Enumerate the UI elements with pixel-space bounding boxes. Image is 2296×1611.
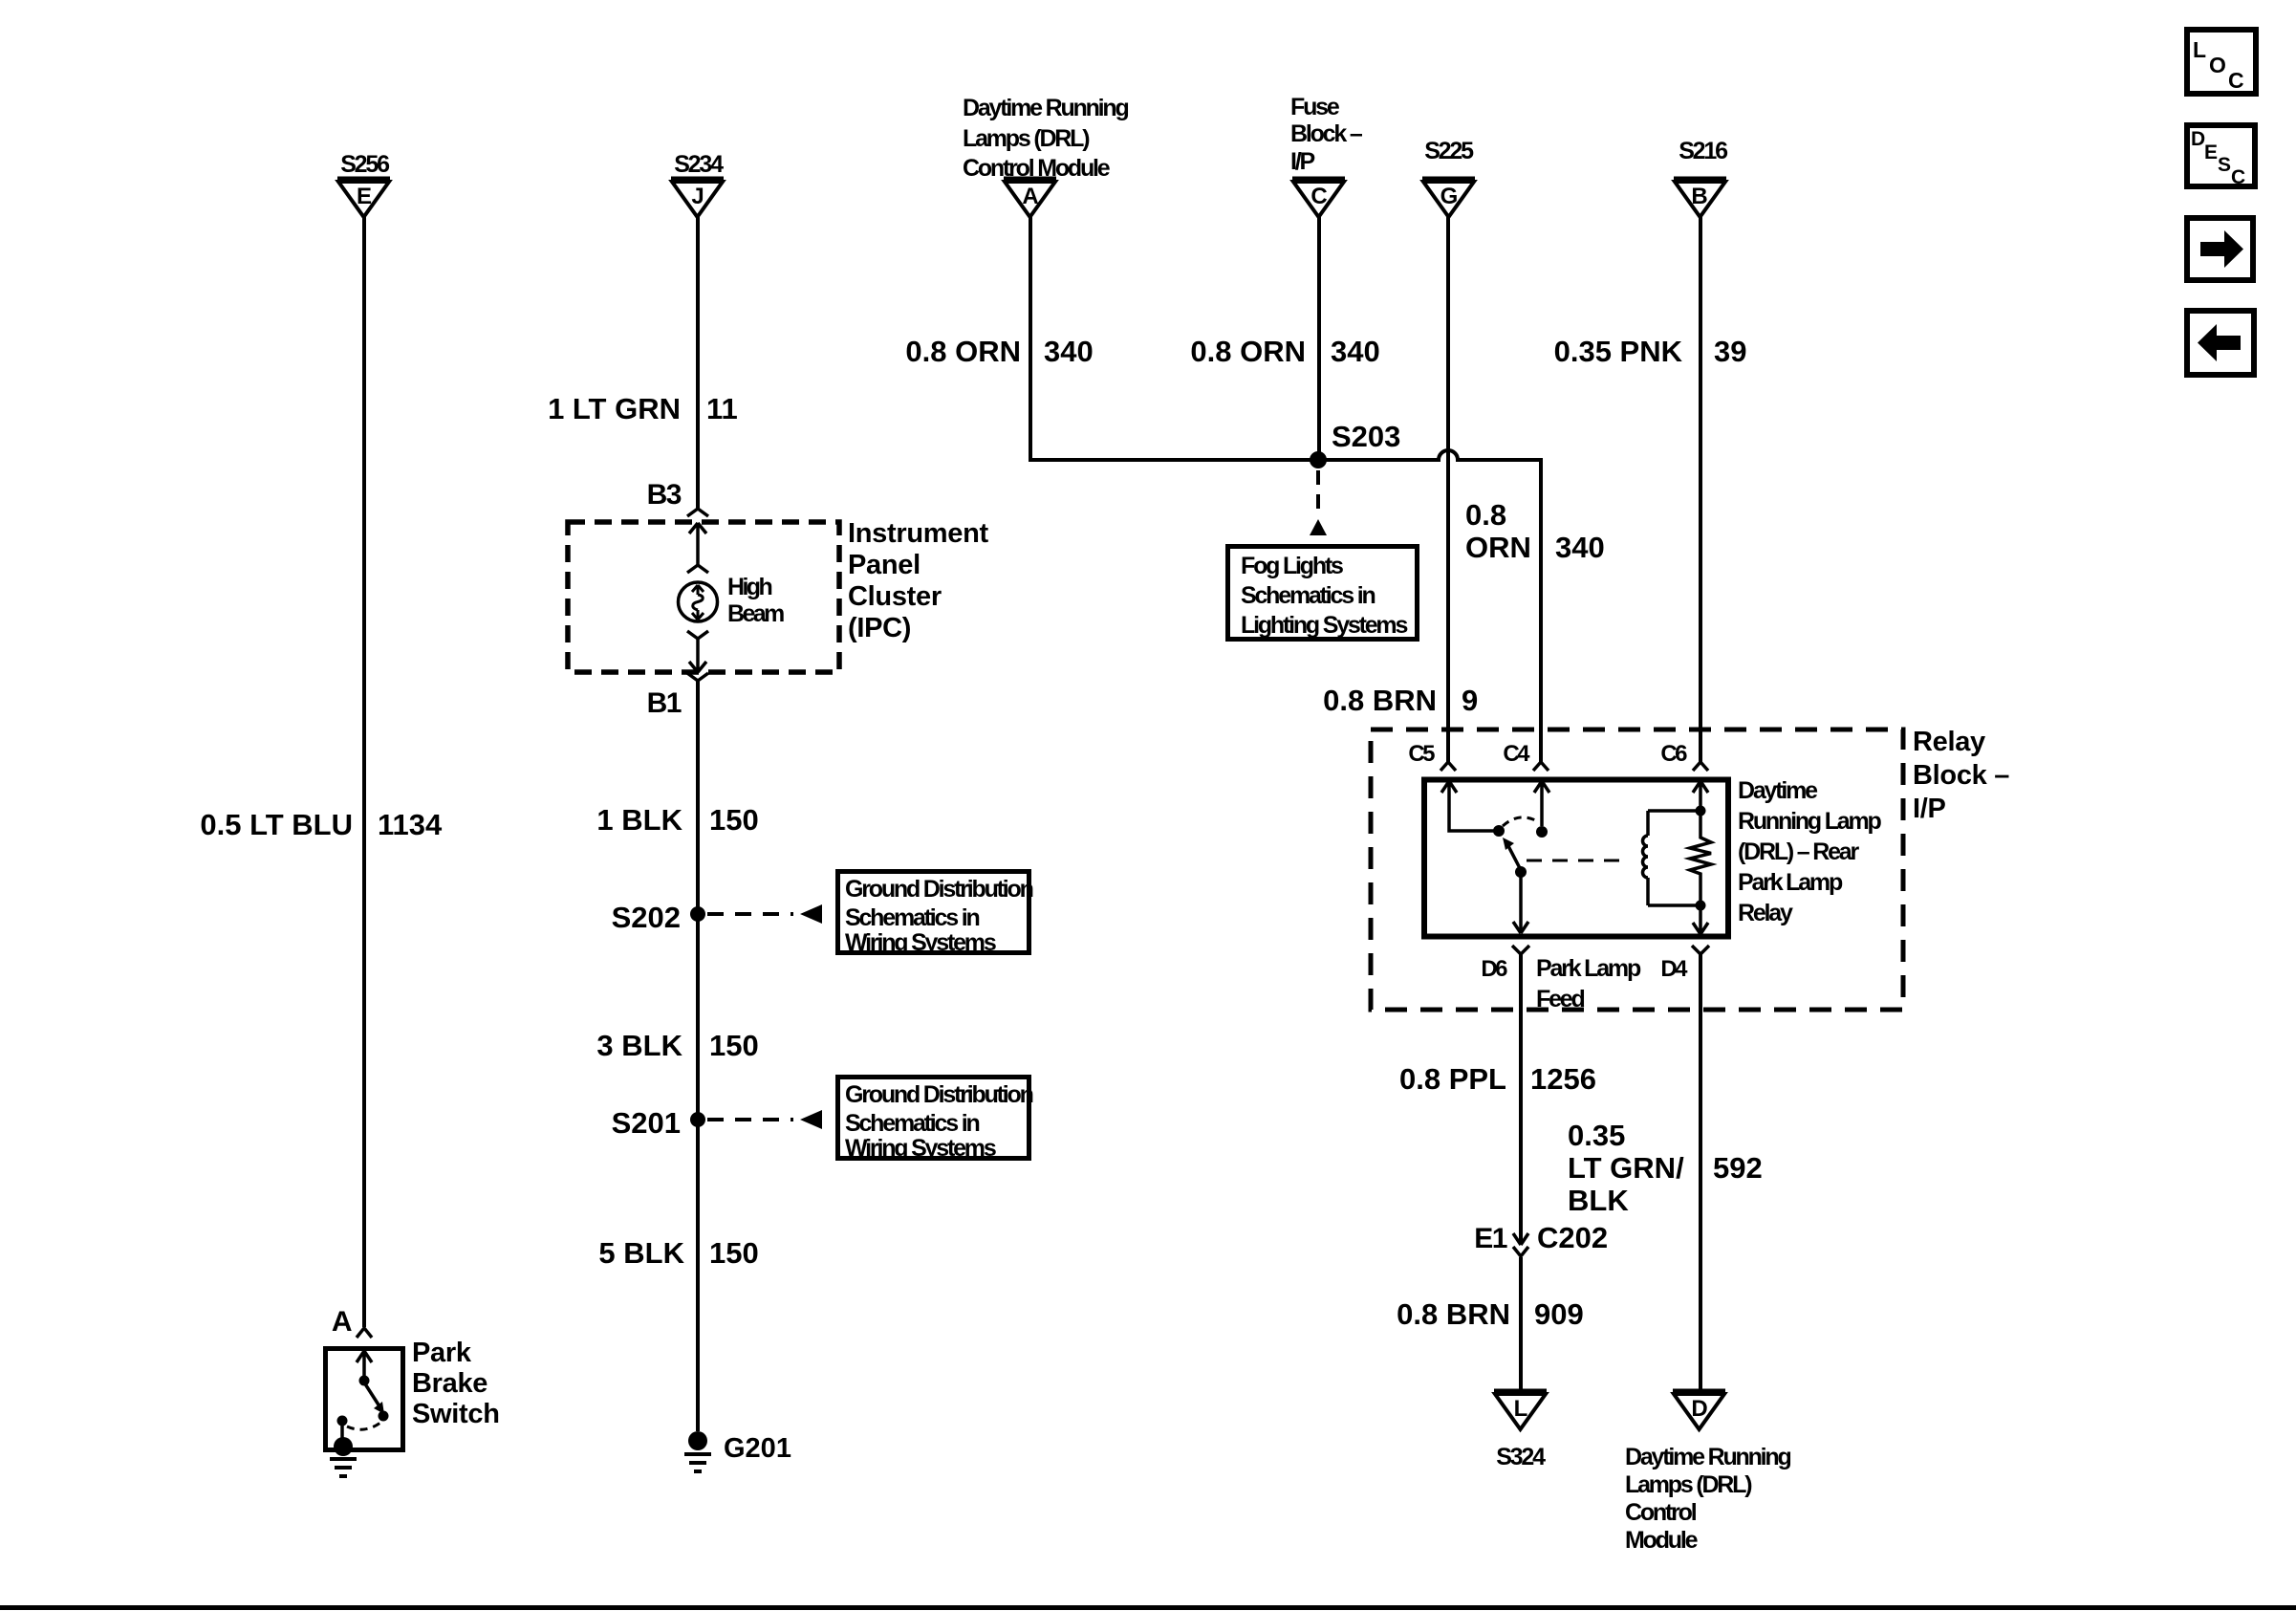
svg-text:A: A xyxy=(332,1306,352,1338)
svg-text:High: High xyxy=(727,574,771,600)
svg-text:Wiring Systems: Wiring Systems xyxy=(845,929,996,956)
svg-text:1256: 1256 xyxy=(1530,1062,1596,1096)
svg-text:Instrument: Instrument xyxy=(848,518,988,549)
connector chevron at D6 xyxy=(1512,946,1529,954)
switch common contact dot xyxy=(1515,866,1527,878)
connector S234 label xyxy=(674,151,724,178)
svg-text:3 BLK: 3 BLK xyxy=(596,1029,682,1062)
svg-text:Daytime Running: Daytime Running xyxy=(1625,1444,1790,1470)
connector triangle J xyxy=(671,179,724,217)
svg-text:I/P: I/P xyxy=(1290,148,1314,175)
svg-text:E: E xyxy=(2204,142,2218,163)
svg-text:Fog Lights: Fog Lights xyxy=(1241,553,1343,579)
label High Beam xyxy=(727,574,784,627)
svg-text:G201: G201 xyxy=(724,1433,791,1464)
svg-text:Schematics in: Schematics in xyxy=(1241,582,1375,609)
ground distribution reference box 2 xyxy=(838,1078,1033,1163)
svg-text:S: S xyxy=(2218,154,2231,176)
svg-text:E1: E1 xyxy=(1474,1223,1507,1254)
svg-text:D6: D6 xyxy=(1481,956,1507,982)
svg-text:592: 592 xyxy=(1713,1151,1763,1185)
svg-text:Wiring Systems: Wiring Systems xyxy=(845,1135,996,1162)
connector chevron at park brake switch pin A xyxy=(357,1328,372,1338)
ground distribution reference box 1 xyxy=(838,872,1033,957)
pin label D4 xyxy=(1660,956,1688,982)
park brake switch box xyxy=(326,1349,403,1450)
svg-text:0.8 BRN: 0.8 BRN xyxy=(1397,1297,1510,1331)
icon box right arrow xyxy=(2187,218,2253,280)
park brake switch internal arrow up xyxy=(357,1351,372,1378)
svg-text:Switch: Switch xyxy=(412,1399,500,1429)
icon box DESC xyxy=(2187,125,2255,188)
wire label 0.35 LT GRN/ BLK 592 (D4 wire) xyxy=(1568,1119,1763,1217)
relay C5 internal wire with up arrow, to switch pivot xyxy=(1441,781,1494,831)
instrument panel cluster dashed box xyxy=(568,522,839,672)
svg-text:1 LT GRN: 1 LT GRN xyxy=(548,392,681,425)
wire from B1 down to G201 xyxy=(696,681,700,1431)
junction dot bottom (D4) xyxy=(1696,901,1706,911)
relay C4 internal wire with up arrow, to contact xyxy=(1534,781,1549,826)
connector chevron at D4 xyxy=(1692,946,1709,954)
svg-text:340: 340 xyxy=(1044,335,1094,368)
svg-text:L: L xyxy=(1514,1396,1528,1422)
wire label 0.8 ORN 340 (A wire) xyxy=(905,335,1093,368)
in-line connector C202 (arrow down + chevron) xyxy=(1513,1233,1528,1245)
svg-text:Control: Control xyxy=(1625,1499,1697,1526)
svg-text:Feed: Feed xyxy=(1536,986,1584,1012)
wire from D4 down to triangle D xyxy=(1699,954,1702,1389)
svg-text:(DRL) – Rear: (DRL) – Rear xyxy=(1738,838,1859,865)
svg-text:(IPC): (IPC) xyxy=(848,613,911,643)
wire from C down to S203 xyxy=(1317,217,1321,460)
wire label 1 LT GRN 11 xyxy=(548,392,738,425)
svg-text:5 BLK: 5 BLK xyxy=(598,1236,684,1270)
svg-text:Panel: Panel xyxy=(848,550,921,580)
wire from S203 right with hop over G wire, then down to C4 xyxy=(1318,450,1541,762)
junction dot top (C6) xyxy=(1696,806,1706,816)
svg-text:S256: S256 xyxy=(340,151,389,178)
connector S216 label xyxy=(1679,138,1727,164)
svg-text:LT GRN/: LT GRN/ xyxy=(1568,1151,1684,1185)
wire label 0.35 PNK 39 (B wire) xyxy=(1554,335,1747,368)
svg-text:B: B xyxy=(1691,184,1707,209)
connector triangle E xyxy=(337,179,390,217)
arrow to ground distribution box 2 (points left) xyxy=(800,1110,822,1129)
svg-text:C5: C5 xyxy=(1408,741,1435,767)
park brake switch case ground dot xyxy=(334,1437,353,1456)
connector triangle L xyxy=(1494,1391,1547,1429)
svg-text:9: 9 xyxy=(1462,684,1478,717)
arrow to fog lights (points up) xyxy=(1310,519,1327,535)
wire from J down to B3 xyxy=(696,217,700,509)
svg-text:B3: B3 xyxy=(647,479,682,511)
connector chevron at C6 xyxy=(1693,762,1708,771)
pin label D6 xyxy=(1481,956,1507,982)
svg-text:ORN: ORN xyxy=(1465,531,1531,564)
svg-text:C6: C6 xyxy=(1660,741,1687,767)
label Fuse Block - I/P xyxy=(1290,94,1363,175)
bottom border line xyxy=(0,1605,2296,1610)
svg-text:I/P: I/P xyxy=(1913,794,1946,824)
svg-text:Daytime Running: Daytime Running xyxy=(963,95,1128,121)
svg-text:C: C xyxy=(2231,166,2245,188)
svg-text:C: C xyxy=(2228,68,2244,93)
wire label 3 BLK 150 xyxy=(596,1029,758,1062)
svg-text:1134: 1134 xyxy=(378,808,443,841)
splice S202 label xyxy=(612,901,681,934)
park brake switch dashed throw arc xyxy=(347,1423,380,1429)
relay block dashed box xyxy=(1371,729,1903,1010)
wire label 0.5 LT BLU 1134 xyxy=(200,808,443,841)
label Park Brake Switch xyxy=(412,1338,500,1429)
switch arm with arrowhead toward pivot xyxy=(1507,844,1521,870)
IPC internal wire arrow up at B3 xyxy=(689,523,706,565)
svg-text:Block –: Block – xyxy=(1290,120,1363,147)
wire from E down to park brake switch xyxy=(362,217,366,1327)
park brake switch arm with arrowhead xyxy=(364,1382,381,1409)
svg-text:Relay: Relay xyxy=(1738,900,1793,926)
high beam indicator bulb xyxy=(679,582,718,621)
svg-text:909: 909 xyxy=(1534,1297,1584,1331)
wire label 0.8 ORN 340 (C4 drop) xyxy=(1465,498,1605,564)
svg-text:Park Lamp: Park Lamp xyxy=(1738,869,1843,896)
svg-text:O: O xyxy=(2209,53,2226,77)
svg-text:Schematics in: Schematics in xyxy=(845,904,979,931)
svg-text:C4: C4 xyxy=(1503,741,1530,767)
svg-text:C202: C202 xyxy=(1537,1221,1608,1254)
park brake switch pivot dot xyxy=(359,1376,370,1386)
svg-text:S234: S234 xyxy=(674,151,724,178)
chevron below high beam bulb xyxy=(687,631,708,639)
svg-text:1 BLK: 1 BLK xyxy=(596,803,682,837)
icon box left arrow xyxy=(2187,311,2254,375)
dashed actuation line from switch to coil xyxy=(1527,860,1630,862)
switch pivot dot xyxy=(1493,825,1505,837)
svg-text:D4: D4 xyxy=(1660,956,1688,982)
wire from A down and right to S203 xyxy=(1030,217,1318,460)
icon box LOC xyxy=(2187,30,2256,94)
svg-text:B1: B1 xyxy=(647,687,682,719)
wire label 1 BLK 150 xyxy=(596,803,758,837)
svg-text:150: 150 xyxy=(709,803,759,837)
connector chevron at C5 xyxy=(1440,762,1456,771)
park brake switch lower contact dot xyxy=(379,1411,389,1422)
wire from D6 down to C202 xyxy=(1519,954,1523,1243)
svg-text:340: 340 xyxy=(1331,335,1380,368)
pin label C4 xyxy=(1503,741,1530,767)
relay common wire down with arrow at box bottom xyxy=(1513,872,1528,933)
coil/resistor bottom bar xyxy=(1648,903,1700,907)
dashed reference link from S202 xyxy=(707,912,793,916)
fog lights reference box xyxy=(1228,547,1418,640)
label Instrument Panel Cluster (IPC) xyxy=(848,518,988,643)
svg-text:0.8 ORN: 0.8 ORN xyxy=(905,335,1021,368)
svg-text:S225: S225 xyxy=(1424,138,1474,164)
svg-text:S201: S201 xyxy=(612,1106,681,1140)
svg-text:0.35: 0.35 xyxy=(1568,1119,1625,1152)
pin label C6 xyxy=(1660,741,1687,767)
svg-text:0.5 LT BLU: 0.5 LT BLU xyxy=(200,808,353,841)
label Daytime Running Lamps (DRL) Control Module (bottom) xyxy=(1625,1444,1790,1554)
label Park Lamp Feed xyxy=(1536,955,1641,1012)
svg-text:Ground Distribution: Ground Distribution xyxy=(845,876,1033,903)
svg-text:Daytime: Daytime xyxy=(1738,777,1818,804)
svg-text:Beam: Beam xyxy=(727,600,784,627)
svg-text:S202: S202 xyxy=(612,901,681,934)
svg-text:150: 150 xyxy=(709,1029,759,1062)
svg-text:A: A xyxy=(1022,184,1038,209)
svg-text:0.8 PPL: 0.8 PPL xyxy=(1399,1062,1506,1096)
connector triangle A xyxy=(1004,179,1056,217)
wire label 0.8 BRN 9 (C5 drop) xyxy=(1323,684,1478,717)
svg-text:E: E xyxy=(357,184,372,209)
svg-text:Fuse: Fuse xyxy=(1290,94,1340,120)
connector triangle G xyxy=(1422,179,1475,217)
relay D4 wire down with arrow at box bottom xyxy=(1693,905,1708,934)
label Daytime Running Lamp (DRL) - Rear Park Lamp Relay xyxy=(1738,777,1882,926)
svg-text:Ground Distribution: Ground Distribution xyxy=(845,1081,1033,1108)
dashed throw arc between pivot and C4 contact xyxy=(1503,817,1539,826)
pin label A (park brake switch) xyxy=(332,1306,352,1338)
junction dot S202 xyxy=(690,906,705,922)
wire label 0.8 PPL 1256 xyxy=(1399,1062,1596,1096)
IPC internal wire arrow down at B1 xyxy=(689,639,706,672)
svg-text:L: L xyxy=(2193,37,2206,62)
label Daytime Running Lamps (DRL) Control Module (top) xyxy=(963,95,1128,182)
connector S256 label xyxy=(340,151,389,178)
svg-text:Running Lamp: Running Lamp xyxy=(1738,808,1882,835)
relay C6 internal wire with up arrow xyxy=(1693,781,1708,811)
svg-text:Cluster: Cluster xyxy=(848,581,942,612)
chevron above high beam bulb xyxy=(687,565,708,573)
splice S203 label xyxy=(1332,420,1400,453)
connector chevron at B3 xyxy=(687,509,708,516)
svg-text:C: C xyxy=(1310,184,1327,209)
svg-text:Park Lamp: Park Lamp xyxy=(1536,955,1641,982)
connector chevron at C4 xyxy=(1533,762,1549,771)
wire from G (S225) down to C5 xyxy=(1446,217,1450,762)
pin label C202 xyxy=(1537,1221,1608,1254)
switch C4 contact dot xyxy=(1536,826,1548,838)
pin label E1 xyxy=(1474,1223,1507,1254)
label Relay Block - I/P xyxy=(1913,727,2009,824)
svg-text:S324: S324 xyxy=(1496,1444,1546,1470)
relay resistor (zigzag) xyxy=(1690,811,1711,905)
svg-text:D: D xyxy=(2191,128,2205,150)
connector triangle D xyxy=(1673,1391,1725,1429)
svg-text:Park: Park xyxy=(412,1338,472,1368)
svg-text:340: 340 xyxy=(1555,531,1605,564)
svg-text:Lamps (DRL): Lamps (DRL) xyxy=(963,125,1090,152)
junction dot S203 xyxy=(1310,451,1327,468)
junction dot S201 xyxy=(690,1112,705,1127)
wire from C202 down to triangle L xyxy=(1519,1257,1523,1389)
coil/resistor top bar xyxy=(1648,809,1700,813)
dashed wire from S203 to fog lights arrow xyxy=(1316,470,1320,518)
splice S201 label xyxy=(612,1106,681,1140)
svg-text:11: 11 xyxy=(706,392,738,425)
wire from B (S216) down to C6 xyxy=(1699,217,1702,762)
connector S324 label xyxy=(1496,1444,1546,1470)
relay coil xyxy=(1643,811,1648,905)
connector triangle B xyxy=(1674,179,1726,217)
wire label 0.8 ORN 340 (C wire) xyxy=(1190,335,1379,368)
connector S225 label xyxy=(1424,138,1474,164)
svg-text:0.8 BRN: 0.8 BRN xyxy=(1323,684,1437,717)
svg-text:Lighting Systems: Lighting Systems xyxy=(1241,612,1407,639)
svg-text:J: J xyxy=(691,184,704,209)
svg-text:0.8 ORN: 0.8 ORN xyxy=(1190,335,1306,368)
ground symbol G201 xyxy=(684,1454,711,1471)
svg-text:Module: Module xyxy=(1625,1527,1699,1554)
svg-text:Lamps (DRL): Lamps (DRL) xyxy=(1625,1471,1752,1498)
pin label C5 xyxy=(1408,741,1435,767)
svg-text:Schematics in: Schematics in xyxy=(845,1110,979,1137)
connector triangle C xyxy=(1292,179,1345,217)
svg-text:Block –: Block – xyxy=(1913,760,2009,791)
wire label 0.8 BRN 909 xyxy=(1397,1297,1584,1331)
pin label B3 xyxy=(647,479,682,511)
wire label 5 BLK 150 xyxy=(598,1236,758,1270)
svg-text:G: G xyxy=(1440,184,1459,209)
svg-text:0.35 PNK: 0.35 PNK xyxy=(1554,335,1683,368)
svg-text:S216: S216 xyxy=(1679,138,1727,164)
ground symbol below park brake switch xyxy=(330,1459,357,1476)
svg-text:BLK: BLK xyxy=(1568,1184,1629,1217)
pin label B1 xyxy=(647,687,682,719)
connector chevron at B1 xyxy=(687,673,708,681)
park brake switch ground contact dot and stub xyxy=(337,1416,348,1426)
svg-text:Brake: Brake xyxy=(412,1368,487,1399)
svg-text:150: 150 xyxy=(709,1236,759,1270)
svg-text:D: D xyxy=(1691,1396,1707,1422)
svg-text:S203: S203 xyxy=(1332,420,1400,453)
relay solid box xyxy=(1424,780,1728,937)
ground G201 dot xyxy=(688,1431,707,1450)
arrow to ground distribution box (points left) xyxy=(800,904,822,924)
svg-text:0.8: 0.8 xyxy=(1465,498,1506,532)
label G201 xyxy=(724,1433,791,1464)
dashed reference link from S201 xyxy=(707,1118,793,1121)
svg-text:Relay: Relay xyxy=(1913,727,1985,757)
svg-text:39: 39 xyxy=(1714,335,1746,368)
